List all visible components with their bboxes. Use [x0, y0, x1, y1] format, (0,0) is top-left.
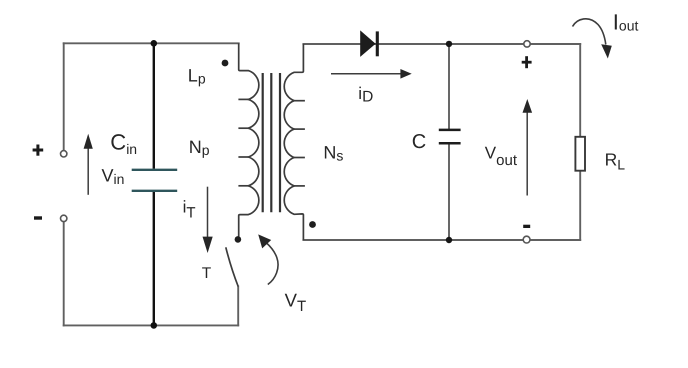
capacitor Cin [132, 170, 178, 191]
wire secondary top rail [303, 43, 523, 45]
wire Cin branch bottom (dark) [153, 192, 155, 326]
terminal - output (open circle) [523, 236, 530, 243]
terminal + output (open circle) [524, 41, 530, 47]
wire switch bottom [237, 287, 239, 326]
arrow iT [203, 187, 213, 253]
svg-text:iD: iD [358, 84, 373, 106]
svg-text:Vin: Vin [102, 165, 125, 187]
wire bottom-left rail [64, 324, 239, 326]
terminal + (open circle) [61, 151, 67, 157]
resistor RL [575, 137, 585, 171]
svg-text:iT: iT [183, 198, 196, 222]
transformer secondary winding Ns [284, 44, 305, 240]
wire left input top [63, 43, 65, 150]
label - (input) [34, 216, 42, 219]
label - output [523, 225, 530, 228]
arrow VT (curved) [258, 234, 278, 284]
node junction top-left [151, 40, 158, 47]
switch terminal dot [235, 236, 242, 243]
svg-text:VT: VT [285, 289, 307, 315]
svg-text:Cin: Cin [110, 129, 137, 156]
svg-text:RL: RL [605, 149, 626, 172]
svg-text:Vout: Vout [485, 144, 518, 169]
label + (input) [33, 145, 44, 156]
svg-text:Iout: Iout [613, 9, 639, 34]
node junction top C [446, 41, 452, 47]
node junction bottom-left [151, 322, 158, 329]
arrow Vin [84, 134, 93, 195]
svg-text:C: C [412, 131, 426, 153]
transformer core [263, 73, 280, 212]
switch T [226, 247, 238, 286]
transformer primary winding Lp/Np [238, 43, 258, 236]
node junction bottom C [446, 237, 452, 243]
arrow Vout [523, 99, 533, 196]
label + output [522, 56, 532, 68]
capacitor C [439, 130, 461, 143]
arrow Iout (curved) [573, 19, 612, 59]
polarity dot primary [222, 60, 229, 67]
terminal - (open circle) [61, 215, 67, 221]
wire left input bottom [63, 222, 65, 326]
wire C branch top [448, 44, 450, 129]
svg-text:Ns: Ns [323, 142, 343, 163]
arrow iD [331, 69, 412, 79]
wire bottom-right rail [303, 239, 523, 241]
wire RL bottom [579, 171, 581, 240]
polarity dot secondary [309, 221, 316, 228]
wire C branch bottom [448, 145, 450, 240]
svg-text:Np: Np [189, 137, 210, 158]
wire Cin branch top (dark) [153, 43, 155, 169]
svg-text:T: T [202, 265, 212, 282]
wire top-left rail [64, 42, 239, 44]
svg-text:Lp: Lp [188, 66, 206, 87]
wire RL top [579, 44, 581, 137]
diode D [360, 30, 377, 57]
